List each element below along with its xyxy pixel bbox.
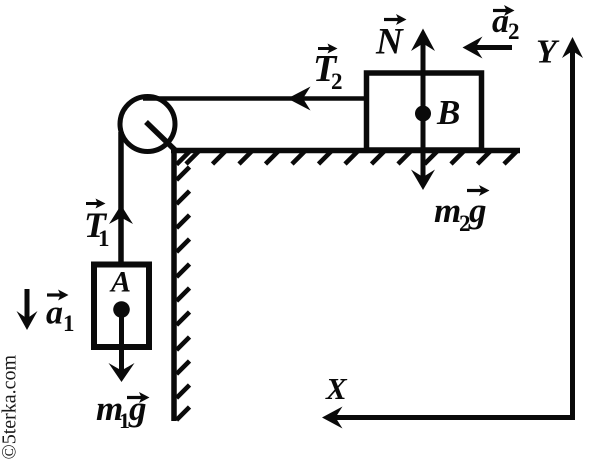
vector m2g arrowhead [411,170,435,191]
svg-text:©5terka.com: ©5terka.com [0,354,21,459]
X axis [329,415,575,420]
pulley bracket [146,122,175,150]
vector T2 arrowhead [288,87,311,111]
svg-text:Y: Y [536,34,560,71]
wall [171,148,177,421]
label a1 [46,290,75,337]
svg-text:2: 2 [508,19,520,44]
table hatching [186,151,517,164]
vector a2 [470,45,512,50]
X axis arrowhead [322,407,343,429]
vector m1g arrowhead [109,363,135,382]
svg-text:g: g [468,191,487,230]
label B [436,93,460,132]
label X [325,371,348,406]
svg-text:A: A [109,266,131,299]
label T2 [313,44,343,95]
svg-text:1: 1 [63,311,75,336]
vector N arrowhead [411,29,435,52]
wire rope to block B [143,96,364,101]
block B [367,73,482,150]
svg-text:2: 2 [331,69,343,94]
Y axis arrowhead [562,37,583,58]
vector T1 arrowhead [109,205,133,224]
svg-text:X: X [325,371,348,406]
block A [94,265,149,348]
label a2 [492,3,520,44]
label m1g [96,389,150,433]
svg-text:B: B [436,93,460,132]
Y axis [570,44,575,420]
wall hatching [177,152,190,421]
vector a1 arrowhead [17,311,38,330]
label N [375,14,407,63]
svg-text:1: 1 [98,226,110,251]
pulley [120,97,175,152]
vector a1 [25,289,30,323]
wire rope to block A [118,132,124,264]
label Y [536,34,560,71]
vector m2g [421,114,426,183]
vector a2 arrowhead [463,37,483,59]
svg-text:m: m [434,191,461,230]
svg-text:N: N [375,22,404,63]
node B dot [415,106,431,122]
table surface [171,148,520,154]
vector m1g [119,310,124,375]
node A dot [113,301,130,318]
label T1 [84,199,110,252]
label A [109,266,131,299]
label m2g [434,185,490,236]
vector N [421,35,426,113]
watermark [0,354,21,459]
svg-text:a: a [46,295,63,332]
